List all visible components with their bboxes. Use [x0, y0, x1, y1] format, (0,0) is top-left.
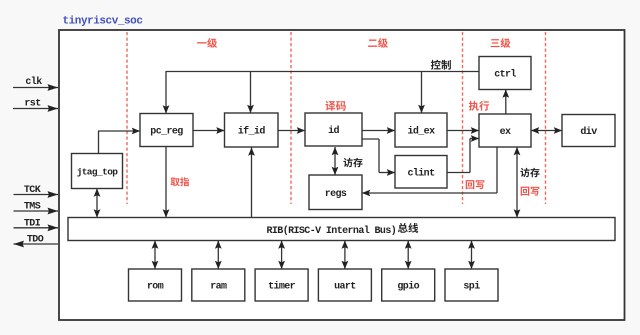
- svg-text:spi: spi: [463, 281, 480, 293]
- svg-text:rom: rom: [147, 282, 164, 293]
- svg-text:id: id: [328, 125, 339, 137]
- svg-text:RIB(RISC-V Internal Bus): RIB(RISC-V Internal Bus): [267, 225, 397, 237]
- svg-text:timer: timer: [268, 281, 296, 293]
- svg-text:if_id: if_id: [238, 126, 266, 138]
- svg-text:rst: rst: [24, 99, 41, 110]
- svg-text:div: div: [580, 126, 597, 138]
- svg-text:clint: clint: [407, 167, 435, 179]
- svg-text:clk: clk: [25, 76, 42, 88]
- svg-text:jtag_top: jtag_top: [77, 167, 119, 178]
- svg-text:id_ex: id_ex: [407, 126, 435, 138]
- svg-text:ex: ex: [500, 127, 511, 138]
- svg-text:gpio: gpio: [397, 281, 419, 293]
- svg-text:TCK: TCK: [24, 185, 41, 196]
- svg-text:ctrl: ctrl: [494, 69, 516, 81]
- svg-text:TDI: TDI: [24, 218, 41, 229]
- svg-text:TMS: TMS: [24, 202, 41, 213]
- svg-text:tinyriscv_soc: tinyriscv_soc: [63, 16, 143, 28]
- svg-text:uart: uart: [334, 282, 356, 293]
- svg-text:ram: ram: [210, 282, 227, 293]
- svg-text:pc_reg: pc_reg: [150, 127, 183, 138]
- svg-text:regs: regs: [325, 189, 347, 200]
- svg-text:TDO: TDO: [27, 235, 44, 246]
